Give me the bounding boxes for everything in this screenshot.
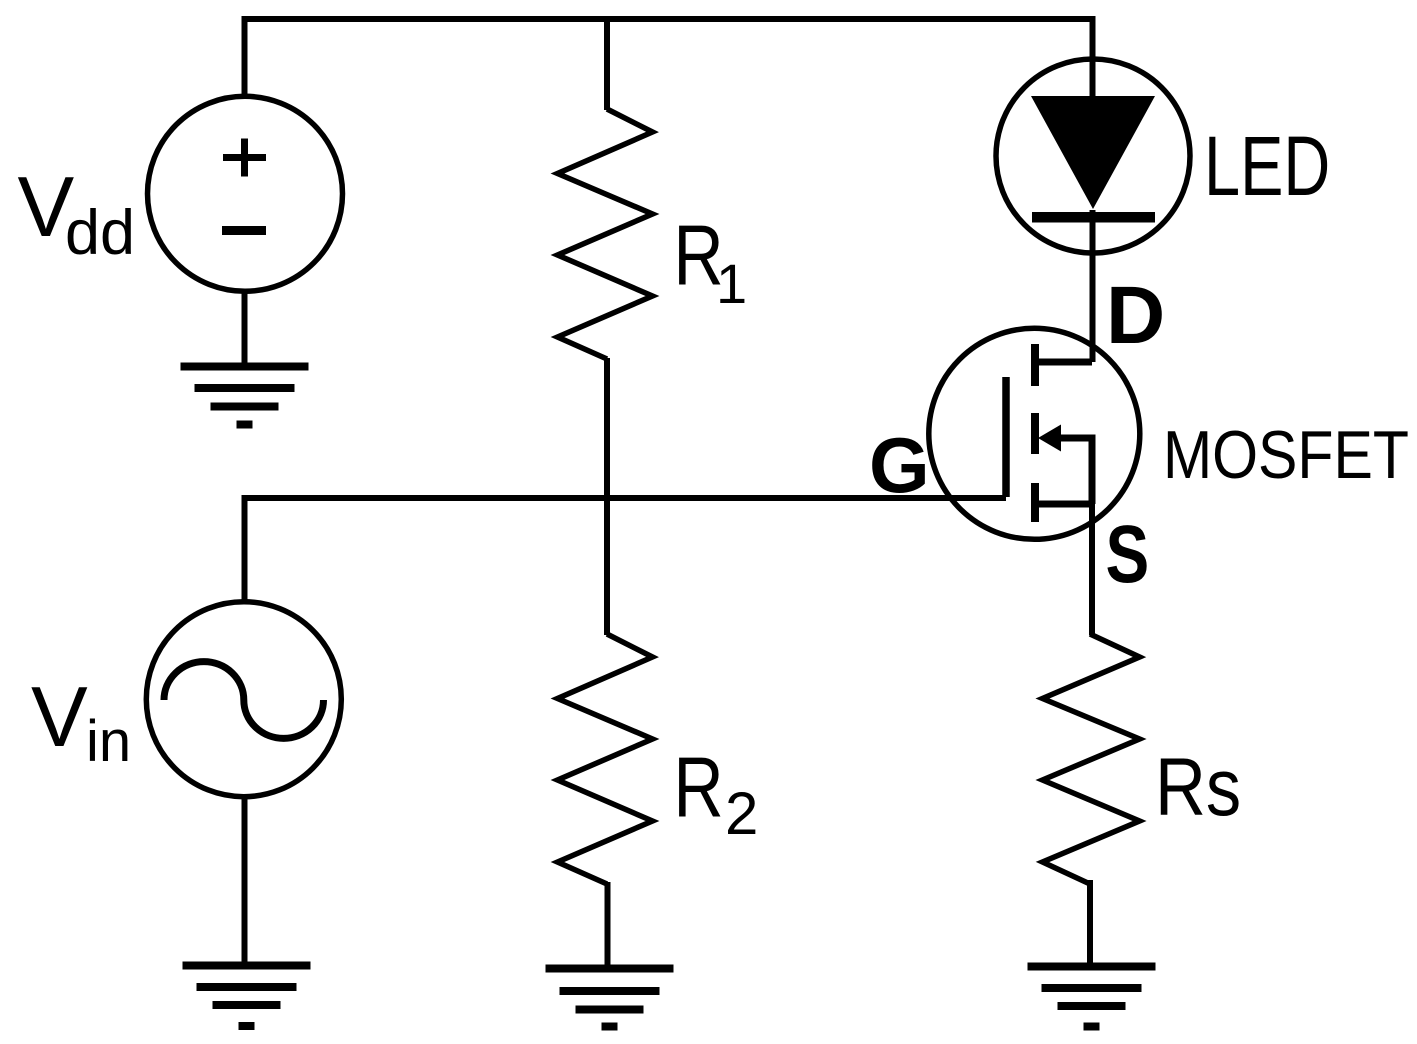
MOSFET channel segment bottom	[1031, 483, 1039, 522]
plus sign of Vdd	[223, 139, 266, 177]
wire Vin to ground	[242, 797, 248, 966]
MOSFET drain tap	[1035, 359, 1092, 366]
wire Vdd to top rail	[242, 19, 248, 98]
svg-text:D: D	[1106, 270, 1165, 361]
wire top rail to R1	[604, 19, 610, 110]
wire Vdd to ground	[242, 290, 248, 366]
minus sign of Vdd	[222, 226, 266, 235]
wire R2 to ground	[605, 882, 611, 969]
svg-text:V: V	[31, 670, 88, 765]
resistor R2	[558, 634, 653, 884]
wire R1 to R2 through gate node	[604, 358, 610, 635]
MOSFET channel segment top	[1031, 344, 1039, 386]
svg-text:Rs: Rs	[1155, 742, 1241, 833]
wire LED cathode to MOSFET drain	[1090, 210, 1096, 362]
wire MOSFET source to Rs	[1089, 500, 1095, 635]
svg-text:G: G	[869, 421, 930, 509]
MOSFET body tap	[1055, 435, 1096, 442]
svg-text:R: R	[673, 741, 723, 835]
svg-text:2: 2	[725, 780, 758, 847]
ground of Vin	[183, 962, 311, 1031]
svg-text:dd: dd	[65, 198, 135, 268]
MOSFET source tap	[1035, 501, 1092, 508]
svg-text:S: S	[1106, 508, 1150, 600]
wire Vin to gate node	[242, 495, 248, 602]
ground of Vdd	[181, 363, 309, 429]
wire top rail to LED anode	[1090, 19, 1096, 100]
voltage source Vin	[146, 602, 341, 797]
LED triangle	[1031, 96, 1155, 209]
LED circle	[996, 59, 1190, 253]
svg-text:LED: LED	[1204, 119, 1330, 213]
wire Rs to ground	[1087, 880, 1093, 966]
wire top rail Vdd node to LED node	[242, 16, 1096, 22]
MOSFET channel segment middle	[1031, 413, 1039, 454]
LED cathode bar	[1032, 212, 1155, 223]
svg-text:in: in	[86, 709, 131, 774]
voltage source Vdd	[148, 96, 343, 291]
svg-text:1: 1	[716, 252, 747, 315]
svg-text:MOSFET: MOSFET	[1163, 417, 1409, 493]
resistor Rs	[1043, 634, 1140, 884]
wire gate node horizontal	[245, 495, 1007, 501]
sine wave of Vin	[164, 662, 324, 739]
MOSFET gate bar	[1002, 377, 1010, 497]
MOSFET body-source vertical	[1089, 435, 1096, 505]
MOSFET body arrow	[1038, 425, 1061, 452]
MOSFET U1 body circle	[929, 328, 1140, 539]
ground of R2	[546, 965, 674, 1031]
resistor R1	[558, 109, 653, 359]
ground of Rs	[1028, 963, 1156, 1031]
